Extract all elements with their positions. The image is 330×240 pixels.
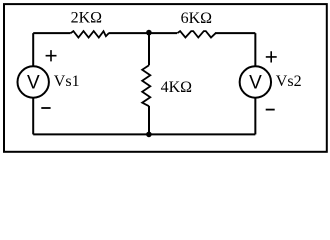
svg-text:Vs2: Vs2 — [276, 73, 302, 90]
svg-text:Vs1: Vs1 — [54, 73, 80, 90]
svg-text:4KΩ: 4KΩ — [161, 79, 193, 96]
svg-text:V: V — [249, 73, 262, 94]
svg-text:2KΩ: 2KΩ — [71, 10, 103, 27]
svg-text:V: V — [27, 73, 40, 94]
svg-text:6KΩ: 6KΩ — [181, 10, 213, 27]
